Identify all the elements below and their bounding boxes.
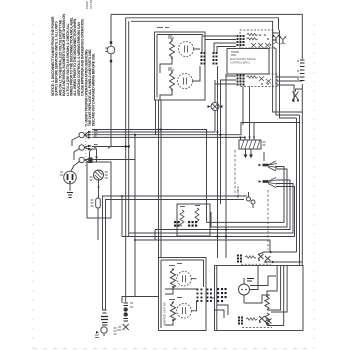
wire xyxy=(98,180,100,198)
wire element drop xyxy=(156,100,162,135)
wire right trunk T2 xyxy=(299,115,301,266)
wire m3 stub xyxy=(122,196,155,240)
dashed wire mid xyxy=(234,150,236,196)
connector pins J6 xyxy=(217,288,227,302)
label column xyxy=(163,302,167,326)
surface element SE2 xyxy=(178,74,193,89)
label xyxy=(169,264,182,266)
svg-text:WHT/BLK: WHT/BLK xyxy=(236,186,240,198)
cooling fan F2 xyxy=(259,178,278,188)
latch relay row top xyxy=(237,251,302,265)
label xyxy=(168,36,174,38)
electronic range control box xyxy=(227,49,269,75)
wire stubs into TB1 xyxy=(241,87,255,141)
element circle terminals xyxy=(183,275,186,314)
wire lamp bottom xyxy=(214,111,216,133)
surface element SE1 xyxy=(179,42,194,57)
warming box pins xyxy=(174,221,197,227)
wire lower relay left xyxy=(215,76,236,86)
wire bus m6 xyxy=(135,240,270,252)
labels xyxy=(180,206,200,207)
wire corner bundle upper xyxy=(103,196,248,310)
wire L1 top frame xyxy=(111,14,302,59)
wire corner bundle lower xyxy=(106,200,245,311)
label TB1 xyxy=(263,142,266,145)
wire bus B5 neutral xyxy=(92,146,129,148)
wire control drops right xyxy=(273,30,303,112)
wire chain B link xyxy=(122,297,135,304)
inner edge xyxy=(157,35,203,98)
wire xyxy=(97,208,99,240)
terminal T1 L1 xyxy=(79,131,92,139)
wire element internal xyxy=(160,49,200,100)
wire vertical mid A xyxy=(217,66,219,258)
page border dashed right xyxy=(313,24,315,348)
connector P3 xyxy=(297,60,305,81)
svg-text:641-60: 641-60 xyxy=(89,0,93,9)
bake element coil xyxy=(265,297,269,310)
connector pins J2 xyxy=(201,52,206,65)
inner left edge xyxy=(216,266,218,331)
wire bus B2 xyxy=(92,123,300,135)
fan net n5 xyxy=(122,187,295,237)
convection fan F1 xyxy=(259,152,278,171)
wire right trunk T1 xyxy=(301,84,303,266)
wire right trunk T3 xyxy=(296,118,298,252)
latch motor M3 xyxy=(239,278,255,303)
svg-text:DISCARD ANY DAMAGED WIRING BEF: DISCARD ANY DAMAGED WIRING BEFORE USE. xyxy=(92,53,96,126)
connector pins J5 xyxy=(207,289,212,302)
wires right xyxy=(258,252,302,262)
connector pins J1b xyxy=(237,75,245,86)
contacts xyxy=(258,254,271,261)
relay coil K4 xyxy=(247,76,258,78)
fan net n3 xyxy=(155,180,290,230)
wire vertical mid C xyxy=(225,74,227,258)
broil switch SW1 xyxy=(292,89,302,102)
label xyxy=(169,298,182,300)
svg-text:SURFACE UNIT RR: SURFACE UNIT RR xyxy=(163,302,167,326)
dashed underline xyxy=(241,263,271,265)
connector pins J3 xyxy=(213,52,218,65)
warming element box xyxy=(177,204,210,236)
connector pins J1a xyxy=(237,35,245,46)
coil xyxy=(246,318,257,320)
wire bus B6 xyxy=(90,149,97,162)
wire relay right stubs xyxy=(273,33,302,102)
wire inner vertical xyxy=(271,266,287,313)
coil xyxy=(245,256,256,258)
pins xyxy=(237,255,242,263)
vertical wire L2 long xyxy=(128,21,130,236)
wire terminals to plug xyxy=(71,137,79,172)
surface element SE2 coil xyxy=(170,73,175,89)
wire element corners xyxy=(267,266,284,326)
bottom-left surface element box xyxy=(159,258,207,331)
warming element W1 xyxy=(180,210,184,226)
vertical wire L1 with fuse xyxy=(108,14,111,148)
surface element SE4 coil xyxy=(170,303,175,321)
fan net n2 xyxy=(211,169,287,227)
door switch DS1 xyxy=(247,192,256,208)
wire bus B4 xyxy=(92,130,207,223)
connector pins J4 xyxy=(197,289,203,302)
surface element SE4 xyxy=(177,304,192,319)
arrowheads xyxy=(240,137,256,140)
box label xyxy=(157,27,169,29)
vertical wire N long xyxy=(125,18,127,302)
fan net n4 xyxy=(129,184,293,234)
fan net n1 xyxy=(207,167,285,223)
wire long pair down to surface box xyxy=(159,130,162,258)
relay coil K1 xyxy=(247,33,258,35)
wire vertical mid B xyxy=(220,86,222,204)
notice text block (rotated) xyxy=(51,13,96,126)
pins xyxy=(238,317,243,325)
wire elements internal xyxy=(165,279,197,325)
relay arc contacts xyxy=(274,37,286,45)
relay board upper dashed xyxy=(240,30,273,48)
wire bus B1 xyxy=(92,131,215,133)
junction dots xyxy=(134,131,227,241)
power cord plug P1 xyxy=(60,171,76,197)
junctions element drops xyxy=(157,128,159,130)
relay contacts K5 xyxy=(259,77,271,84)
wire left corners xyxy=(211,297,215,299)
surface element SE3 xyxy=(177,271,192,286)
page border dashed bottom xyxy=(33,348,314,350)
junction xyxy=(125,145,127,147)
surface element SE1 coil xyxy=(170,41,175,57)
dotted terminal outline xyxy=(85,126,87,166)
label xyxy=(168,68,174,70)
relay board lower dashed xyxy=(240,74,277,87)
relay contacts K3 xyxy=(251,43,270,48)
wire bus B7 xyxy=(85,159,135,161)
ground arrows below TB1 xyxy=(246,149,252,155)
wire chain A stack xyxy=(95,310,108,338)
contacts xyxy=(259,316,272,324)
wire pins to control xyxy=(202,36,236,52)
terminal T2 N xyxy=(79,145,92,150)
element circle terminals xyxy=(184,46,188,85)
wire label WHT/BLK xyxy=(236,186,240,198)
latch relay row bottom xyxy=(238,316,272,328)
relay coil K2 xyxy=(247,38,258,40)
wire vertical mid drop xyxy=(135,135,159,297)
page border dashed left xyxy=(32,24,34,348)
inner edges xyxy=(161,260,204,328)
dashed wire down right xyxy=(267,190,269,250)
bottom-right box xyxy=(215,266,304,331)
dashed underline xyxy=(242,327,272,329)
terminal strip TB1 hatched xyxy=(239,140,261,149)
oven lamp L1 xyxy=(208,103,223,111)
blower motor B1 xyxy=(90,170,108,180)
wire chain B stack xyxy=(114,303,134,334)
wire N top frame xyxy=(126,18,279,30)
wire lamp top xyxy=(214,80,216,103)
svg-text:CONTROL (ERC): CONTROL (ERC) xyxy=(230,62,250,65)
wire motor corners xyxy=(244,266,276,304)
terminal T3 L2 xyxy=(79,157,93,163)
blower unit box xyxy=(87,162,111,218)
wire bus B3 xyxy=(92,137,241,140)
wire L2 top frame xyxy=(131,21,273,30)
terminal labels xyxy=(94,131,98,158)
broil element coil xyxy=(265,313,269,326)
surface element SE3 coil xyxy=(170,270,175,288)
fuse F1 xyxy=(105,41,115,62)
part number label xyxy=(85,0,93,9)
warming element W2 xyxy=(195,208,199,222)
resistor R1 xyxy=(91,198,101,208)
surface element box left xyxy=(155,32,206,100)
